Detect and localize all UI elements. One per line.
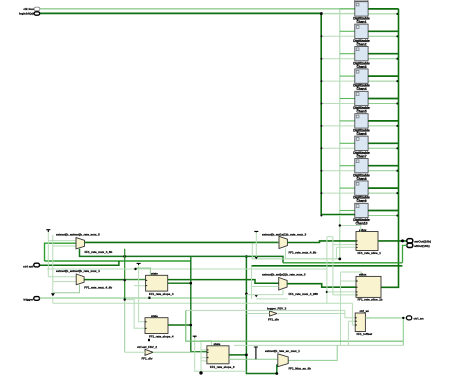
svg-text:Chan5: Chan5 xyxy=(356,110,366,114)
wire: Chan7 output 2 xyxy=(368,147,397,149)
subsystem Digitizable Chan10 xyxy=(353,203,370,225)
mux Mux2 xyxy=(56,269,112,290)
svg-text:Chan8: Chan8 xyxy=(356,177,366,181)
svg-text:FF1_dlv: FF1_dlv xyxy=(268,317,279,321)
svg-text:extract[b_extract]b_rate_mux_5: extract[b_extract]b_rate_mux_5 xyxy=(56,233,100,237)
block FF1_toffset xyxy=(355,309,372,336)
wire: Chan8 input stub 2 xyxy=(321,170,355,172)
svg-text:FF1_rate_slice_1: FF1_rate_slice_1 xyxy=(358,251,382,255)
terminator T x=255.9 bottom xyxy=(254,347,258,359)
terminator T x=138.6 xyxy=(137,263,141,265)
svg-text:Chan3: Chan3 xyxy=(356,65,366,69)
wire: efOut stub from bright riser xyxy=(403,245,407,262)
svg-text:state: state xyxy=(151,272,158,276)
subsystem Digitizable Chan3 xyxy=(353,47,370,69)
wire: triangle in xyxy=(125,351,145,353)
wire: Chan10 input stub 1 xyxy=(340,210,355,212)
svg-text:Chan7: Chan7 xyxy=(356,154,366,158)
svg-text:FF1_rate_slope_3: FF1_rate_slope_3 xyxy=(210,365,235,369)
wire: Chan10 output 2 xyxy=(368,215,397,217)
state block A0 xyxy=(146,272,174,300)
subsystem Digitizable Chan1 xyxy=(353,2,370,24)
wire: riser x=256.3 xyxy=(255,232,257,258)
wire: pale h y=345.4 xyxy=(234,344,403,346)
wire: state B loop box xyxy=(201,341,212,373)
terminator T x=256.3 above mux3 xyxy=(254,231,258,232)
wire: toffset in2 xyxy=(348,321,355,345)
wire: Chan1 input stub 1 xyxy=(340,8,355,10)
svg-text:ctrl ext_FSV_2: ctrl ext_FSV_2 xyxy=(137,345,157,349)
wire: Chan9 input stub 1 xyxy=(340,187,355,189)
svg-text:state: state xyxy=(151,314,158,318)
svg-text:trigger: trigger xyxy=(23,298,34,302)
state block A1 xyxy=(145,314,174,341)
subsystem Digitizable Chan6 xyxy=(353,114,370,136)
svg-text:swOut(16b): swOut(16b) xyxy=(414,239,431,243)
wire: mux2 output to mux4 xyxy=(84,280,279,284)
svg-text:FF1_rate_slice_1b: FF1_rate_slice_1b xyxy=(358,298,383,302)
svg-text:FF1_rate_mux_4_6b: FF1_rate_mux_4_6b xyxy=(84,286,112,290)
svg-text:Chan4: Chan4 xyxy=(356,87,366,91)
subsystem Digitizable Chan4 xyxy=(353,69,370,91)
svg-text:extract[b_ext1s(1)b_rate_mux_3: extract[b_ext1s(1)b_rate_mux_3 xyxy=(262,232,307,236)
mux Mux3 xyxy=(262,232,317,254)
wire: A0 output down xyxy=(168,282,191,284)
subsystem Digitizable Chan8 xyxy=(353,159,370,181)
port Out swOut xyxy=(407,239,413,243)
wire: dark vertical trunk x=321.2 xyxy=(321,13,355,214)
svg-text:efOut(16b): efOut(16b) xyxy=(414,244,429,248)
wire: Chan3 output 2 xyxy=(368,58,397,60)
port In1 clk symbol xyxy=(34,7,40,10)
wire: mux3 in2 loop xyxy=(252,243,279,259)
svg-text:FF1_rate_mux_4_6b: FF1_rate_mux_4_6b xyxy=(289,251,317,255)
wire: mux1 input risers xyxy=(48,232,53,293)
wire: Chan5 output bus xyxy=(368,98,398,100)
svg-text:FF1_rate_mux_4_6b: FF1_rate_mux_4_6b xyxy=(85,250,113,254)
wire: clk vertical branch x=339.8 xyxy=(339,9,341,259)
wire: mux5 out riser xyxy=(288,345,337,360)
wire: Chan5 input stub 1 xyxy=(340,98,355,100)
wire: Chan1 output 2 xyxy=(368,13,397,15)
wire: Chan8 input stub 1 xyxy=(340,165,355,167)
state block B xyxy=(207,342,235,369)
wire: port3 loop y=341.2 xyxy=(186,310,403,341)
svg-text:Chan2: Chan2 xyxy=(356,42,366,46)
wire: Chan2 output 2 xyxy=(368,35,397,37)
subsystem Digitizable Chan2 xyxy=(353,24,370,46)
wire: Chan3 input stub 2 xyxy=(321,58,355,60)
wire: Chan2 output bus xyxy=(368,30,398,32)
mux Mux4 xyxy=(262,272,318,296)
wire: Chan7 output bus xyxy=(368,142,398,144)
svg-text:clk bus: clk bus xyxy=(23,7,34,11)
wire: Chan6 input stub 1 xyxy=(340,120,355,122)
svg-text:FF1_rate_mux_4_288: FF1_rate_mux_4_288 xyxy=(289,292,319,296)
svg-text:state: state xyxy=(214,342,221,346)
svg-text:eMux: eMux xyxy=(359,273,367,277)
svg-text:ctrl ext: ctrl ext xyxy=(23,264,33,268)
wire: Chan10 output bus xyxy=(368,210,398,212)
subsystem eMux1 xyxy=(356,228,381,255)
svg-text:Chan9: Chan9 xyxy=(356,199,366,203)
junction mux5 bottom xyxy=(275,372,278,375)
svg-text:logicbit(s): logicbit(s) xyxy=(19,12,34,16)
wire: logicbit pale continuation to Chan1 xyxy=(321,12,355,14)
wire: Chan8 output 2 xyxy=(368,170,397,172)
terminator T above mux1 xyxy=(46,230,50,232)
wire: Chan3 input stub 1 xyxy=(340,53,355,55)
terminator dot under state B box xyxy=(199,371,202,374)
svg-text:Chan1: Chan1 xyxy=(356,20,366,24)
svg-text:extract[b_ext]s(1)b_rate_mux_3: extract[b_ext]s(1)b_rate_mux_3 xyxy=(262,272,306,276)
terminator arrow mux2 feedback xyxy=(51,293,55,296)
wire: A0 top entry from ctrl trunk xyxy=(136,268,151,275)
wire: bright green trunk y=262.8 xyxy=(45,243,191,261)
svg-text:FF1_rate_slope_4: FF1_rate_slope_4 xyxy=(149,334,174,338)
port Out ctrl_an xyxy=(407,316,412,320)
svg-text:Chan6: Chan6 xyxy=(356,132,366,136)
wire: mux1 output to mux3 xyxy=(85,241,279,243)
svg-text:FF1_rate_slope_4: FF1_rate_slope_4 xyxy=(149,292,174,296)
wire: Chan7 input stub 2 xyxy=(321,147,355,149)
junction at logicbit branch xyxy=(320,12,323,15)
wire: trigger trunk xyxy=(40,297,247,299)
wire: Chan9 output 2 xyxy=(368,192,397,194)
junction eMux1 out x=398.5 xyxy=(401,239,404,242)
svg-text:extract[b_rate_an_mux_1: extract[b_rate_an_mux_1 xyxy=(265,349,300,353)
wire: eMux2 in3 xyxy=(327,291,356,293)
svg-text:ctrl_an: ctrl_an xyxy=(360,309,370,313)
wire: Chan4 output 2 xyxy=(368,80,397,82)
wire: Chan1 input stub 2 xyxy=(321,13,355,15)
subsystem Digitizable Chan9 xyxy=(353,181,370,203)
subsystem Digitizable Chan7 xyxy=(353,136,370,158)
wire: state B out2 to mux5 xyxy=(229,358,278,360)
wire: Chan4 input stub 1 xyxy=(340,75,355,77)
wire: mux3 output jog to eMux1 xyxy=(287,241,356,243)
wire: riser x=138.6 to state A1 xyxy=(139,265,145,322)
wire: eMux1 output to swOut port xyxy=(378,240,407,242)
wire: eMux1 top entry xyxy=(340,226,361,232)
wire: right dark vertical trunk x=398.5 xyxy=(381,9,399,288)
wire: A0 loop y=310.4 xyxy=(186,310,355,317)
wire: ctrl ext dark trunk y=265.8 xyxy=(39,261,119,265)
wire: A0 in1 from ctrl vertical xyxy=(125,279,146,281)
port Out efOut xyxy=(407,243,413,247)
wire: Chan9 input stub 2 xyxy=(321,192,355,194)
wire: Chan5 input stub 2 xyxy=(321,103,355,105)
wire: Chan3 output bus xyxy=(368,53,398,55)
wire: clk net light horizontal xyxy=(40,8,355,10)
wire: Chan6 output bus xyxy=(368,120,398,122)
wire: mux1 lower feedback box xyxy=(80,249,284,263)
svg-text:FF1_Mux_an_6b: FF1_Mux_an_6b xyxy=(289,367,312,371)
wire: FSV_3 out to riser x=344.9 xyxy=(277,313,345,315)
gain triangle FSV_3 xyxy=(267,307,287,322)
wire: Chan7 input stub 1 xyxy=(340,142,355,144)
mux Mux1 xyxy=(56,233,113,254)
wire: eMux2 top entry xyxy=(341,272,362,345)
wire: Chan2 input stub 2 xyxy=(321,35,355,37)
wire: riser x=194.7 down xyxy=(195,338,247,372)
wire: pale net y=303.3 xyxy=(53,298,355,325)
subsystem eMux2 xyxy=(356,273,383,302)
gain triangle FF1_dlv left xyxy=(137,345,157,360)
wire: triangle out to state B xyxy=(153,351,207,353)
svg-text:FF1_toffset: FF1_toffset xyxy=(357,332,373,336)
mux Mux5 xyxy=(265,349,311,370)
wire: Chan4 input stub 2 xyxy=(321,80,355,82)
wire: Chan10 input stub 2 xyxy=(321,215,355,217)
wire: ctrl_an port riser down xyxy=(402,318,404,346)
svg-text:ctrl_an: ctrl_an xyxy=(414,317,424,321)
wire: state B output to trigger net xyxy=(229,354,246,356)
wire: mux4 output jog to eMux2 xyxy=(287,284,356,288)
terminator T x=194.7 xyxy=(193,336,197,337)
wire: Chan2 input stub 1 xyxy=(340,30,355,32)
wire: vertical x=324.8 xyxy=(327,237,333,303)
wire: long pale h y=269 xyxy=(47,268,327,270)
port In2 logicbit symbol xyxy=(34,12,40,15)
wire: Chan8 output bus xyxy=(368,165,398,167)
wire: Chan5 output 2 xyxy=(368,103,397,105)
wire: eMux1 in2 / vertical x=331.9 xyxy=(333,237,356,295)
wire: mux2 lower feedback xyxy=(53,285,80,293)
wire: mux3 bottom feedback xyxy=(285,249,287,259)
gray cap above Chan1 xyxy=(355,0,368,2)
wire: Chan9 output bus xyxy=(368,187,398,189)
wire: mux4 in2 xyxy=(246,267,287,299)
wire: FSV_3 in xyxy=(246,313,269,315)
wire: A1 output down to state B xyxy=(168,324,191,326)
subsystem Digitizable Chan5 xyxy=(353,91,370,113)
svg-text:eMux: eMux xyxy=(359,228,367,232)
wire: eMux2 in1 / x=336.4 lower xyxy=(341,280,357,282)
wire: logicbit dark trunk horizontal xyxy=(40,12,321,14)
wire: ctrl vertical x=124.7 xyxy=(124,249,126,300)
wire: Chan1 output bus xyxy=(368,8,398,10)
wire: Chan6 input stub 2 xyxy=(321,125,355,127)
wire: toffset output to ctrl_an port xyxy=(365,317,406,319)
wire: Chan4 output bus xyxy=(368,75,398,77)
wire: A0 in2 loop xyxy=(125,300,145,329)
wire: Chan6 output 2 xyxy=(368,125,397,127)
wire: eMux1 in3 / x=336.4 upper xyxy=(336,247,355,259)
svg-text:FF1_dlv: FF1_dlv xyxy=(142,357,153,361)
